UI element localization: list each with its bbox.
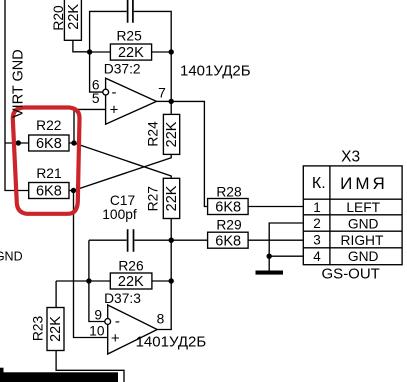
capacitor C17 bbox=[128, 229, 134, 251]
svg-text:4: 4 bbox=[313, 249, 321, 264]
svg-text:22K: 22K bbox=[164, 121, 180, 147]
svg-text:2: 2 bbox=[313, 216, 321, 231]
svg-text:+: + bbox=[111, 330, 120, 347]
svg-text:5: 5 bbox=[92, 91, 100, 106]
svg-text:R20: R20 bbox=[51, 5, 66, 31]
resistor R29 bbox=[208, 232, 249, 248]
wire R25 node down to output node bbox=[170, 52, 172, 101]
resistor R20 bbox=[64, 0, 81, 40]
wire R23 top bbox=[55, 281, 57, 308]
node R26 left junction bbox=[86, 278, 91, 283]
resistor R23 bbox=[47, 308, 64, 351]
svg-text:R29: R29 bbox=[216, 217, 242, 232]
svg-text:LEFT: LEFT bbox=[346, 200, 380, 215]
svg-text:R22: R22 bbox=[36, 118, 61, 133]
svg-text:-: - bbox=[112, 84, 117, 101]
wire feedback top left bbox=[90, 11, 127, 51]
pin 6 inverting bubble bbox=[103, 89, 109, 95]
svg-text:К.: К. bbox=[312, 175, 326, 192]
wire R25 right bbox=[151, 51, 171, 53]
svg-text:-: - bbox=[115, 313, 120, 330]
svg-text:10: 10 bbox=[89, 324, 105, 339]
connector X3 table bbox=[303, 166, 402, 265]
svg-text:X3: X3 bbox=[341, 148, 360, 165]
svg-text:R23: R23 bbox=[31, 316, 46, 342]
op-amp U2 D37:3 triangle bbox=[108, 305, 158, 354]
svg-text:22K: 22K bbox=[66, 4, 82, 30]
resistor R24 bbox=[163, 114, 179, 154]
svg-text:22K: 22K bbox=[164, 185, 180, 211]
black censored bar bottom left bbox=[0, 372, 118, 382]
svg-text:6K8: 6K8 bbox=[36, 136, 62, 152]
svg-text:+: + bbox=[110, 102, 119, 119]
svg-text:R28: R28 bbox=[216, 185, 242, 200]
resistor R21 bbox=[29, 183, 69, 199]
wire output pin7 bbox=[157, 100, 172, 102]
svg-text:GND: GND bbox=[348, 249, 379, 264]
wire diagonal R22 to R27 top bbox=[74, 143, 171, 179]
svg-text:GS-OUT: GS-OUT bbox=[322, 266, 380, 283]
svg-text:D37:3: D37:3 bbox=[104, 291, 141, 306]
resistor R26 bbox=[110, 273, 152, 289]
svg-text:C17: C17 bbox=[110, 193, 135, 208]
svg-text:R25: R25 bbox=[116, 29, 142, 44]
wire R20 bottom bbox=[73, 40, 90, 52]
wire to ground bbox=[268, 256, 270, 270]
svg-text:GND: GND bbox=[0, 250, 23, 264]
wire C17 node to R29 bbox=[171, 239, 207, 241]
wire R29 right to pin3 bbox=[248, 239, 303, 241]
wire left bus VIRT GND bbox=[5, 0, 29, 191]
wire C17 left down to pin9 bbox=[89, 240, 105, 321]
pin 9 inverting bubble bbox=[105, 319, 111, 325]
wire R25 left bbox=[90, 51, 111, 53]
wire output to R24 top bbox=[170, 101, 172, 114]
wire R26 left with R23 branch bbox=[56, 280, 110, 282]
svg-text:6K8: 6K8 bbox=[215, 233, 241, 249]
svg-text:1401УД2Б: 1401УД2Б bbox=[136, 334, 207, 351]
svg-text:1: 1 bbox=[313, 200, 321, 215]
svg-text:R24: R24 bbox=[145, 121, 160, 147]
wire output to R28 bbox=[171, 101, 208, 206]
svg-text:9: 9 bbox=[94, 308, 102, 323]
wire output2 vertical bbox=[157, 240, 171, 329]
wire diagonal R21 to R24 bottom bbox=[74, 154, 172, 190]
node R20/R25 junction bbox=[87, 49, 92, 54]
node gnd junction bbox=[267, 254, 272, 259]
wire C17 row left bbox=[89, 239, 127, 241]
node R21 right junction bbox=[71, 188, 76, 193]
op-amp U1 D37:2 triangle bbox=[106, 78, 157, 124]
wire R22 left branch bbox=[5, 142, 29, 144]
ground bbox=[256, 271, 284, 275]
svg-text:8: 8 bbox=[157, 312, 165, 327]
resistor R22 bbox=[29, 135, 69, 151]
svg-text:R26: R26 bbox=[118, 259, 144, 274]
wire C17 right bbox=[134, 239, 171, 241]
wire R22 right to pin5 bbox=[69, 109, 106, 143]
svg-text:3: 3 bbox=[313, 233, 321, 248]
node C17 right junction bbox=[169, 238, 174, 243]
svg-text:7: 7 bbox=[158, 86, 166, 101]
wire feedback top right bbox=[134, 11, 171, 52]
wire pin6 from node bbox=[90, 52, 103, 92]
node output op-amp1 bbox=[169, 99, 174, 104]
svg-text:1401УД2Б: 1401УД2Б bbox=[180, 63, 251, 80]
svg-text:22K: 22K bbox=[118, 45, 144, 61]
wire R23 bottom bbox=[56, 351, 124, 382]
svg-text:R27: R27 bbox=[145, 186, 160, 211]
resistor R27 bbox=[163, 178, 179, 218]
node R26 right junction bbox=[169, 278, 174, 283]
wire R26 right bbox=[152, 280, 171, 282]
svg-text:6K8: 6K8 bbox=[36, 184, 62, 200]
svg-text:R21: R21 bbox=[36, 166, 61, 181]
svg-text:GND: GND bbox=[348, 217, 379, 232]
node R22 left junction bbox=[16, 140, 21, 145]
node R25 right junction bbox=[169, 49, 174, 54]
svg-text:100pf: 100pf bbox=[102, 207, 137, 222]
red annotation ellipse around R22 R21 bbox=[13, 108, 80, 214]
wire R27 bottom bbox=[170, 219, 172, 241]
wire pin2 to gnd column bbox=[269, 223, 303, 256]
capacitor top feedback bbox=[128, 0, 133, 23]
node R22 right junction bbox=[71, 140, 76, 145]
resistor R25 bbox=[110, 44, 151, 60]
svg-text:VIRT GND: VIRT GND bbox=[10, 49, 26, 118]
resistor R28 bbox=[208, 199, 249, 215]
wire pin4 to gnd column bbox=[269, 255, 303, 257]
svg-text:22K: 22K bbox=[48, 316, 64, 342]
svg-text:6K8: 6K8 bbox=[215, 200, 241, 216]
svg-text:ИМЯ: ИМЯ bbox=[340, 174, 388, 193]
wire R21 right to pin10 bbox=[69, 191, 108, 338]
svg-text:RIGHT: RIGHT bbox=[341, 233, 384, 248]
svg-text:D37:2: D37:2 bbox=[104, 62, 141, 77]
wire R28 right to pin1 bbox=[248, 206, 303, 208]
svg-text:22K: 22K bbox=[118, 274, 144, 290]
